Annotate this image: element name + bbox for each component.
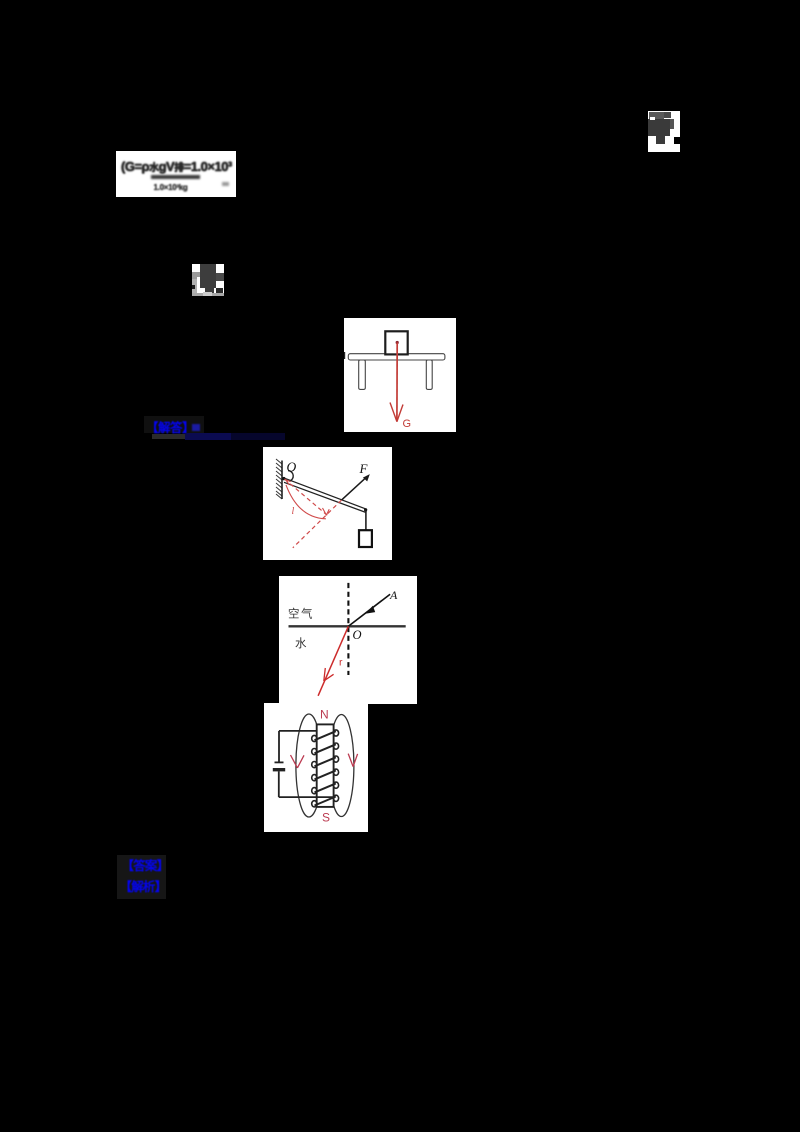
answer text blue 1: [144, 416, 204, 433]
figure 4 : solenoid with battery and field lines: [264, 703, 368, 832]
svg-text:O: O: [353, 628, 362, 642]
water surface: [289, 625, 406, 627]
weight dot: [396, 341, 399, 344]
equation snippet image: [116, 151, 236, 197]
svg-text:O: O: [287, 460, 297, 475]
beam end dot: [364, 508, 367, 511]
red arrowhead near O: [286, 480, 291, 482]
refracted ray red: [318, 626, 348, 696]
figure 2 : lever with force F and moment arm: [263, 447, 392, 560]
hinge arc: [288, 471, 293, 482]
weight block: [359, 530, 372, 547]
left field line ellipse: [296, 714, 322, 817]
svg-text:r: r: [339, 657, 343, 669]
svg-text:F: F: [359, 461, 369, 476]
wall line: [281, 461, 283, 500]
battery plates: [275, 761, 284, 763]
wall hatching: [276, 459, 282, 499]
red arc: [286, 485, 326, 519]
red dashed extension of F line: [293, 500, 342, 548]
edge tick: [344, 352, 345, 359]
answer text blue 2: [117, 855, 166, 899]
figure 1 : block on table with weight arrow G: [344, 318, 456, 432]
svg-text:G: G: [403, 418, 412, 430]
circuit wires: [279, 730, 317, 732]
hanger line: [365, 511, 367, 531]
core rect: [317, 724, 334, 807]
red arrowhead at foot: [323, 508, 327, 515]
left leg: [359, 360, 366, 389]
icon thumbnail top-right: [648, 111, 680, 152]
block: [385, 331, 407, 354]
force F arrow: [342, 476, 368, 500]
svg-text:水: 水: [295, 637, 307, 650]
normal dashed: [347, 583, 349, 675]
right leg: [426, 360, 432, 389]
right field line ellipse: [329, 715, 354, 817]
figure 3 : refraction at water surface: [279, 576, 417, 704]
red field arrows: [291, 754, 358, 768]
beam (double line): [285, 478, 367, 509]
svg-text:A: A: [389, 588, 398, 602]
pivot dot: [282, 477, 285, 480]
svg-text:空气: 空气: [288, 607, 314, 621]
svg-text:N: N: [320, 708, 329, 722]
incident ray: [348, 594, 390, 626]
table top: [348, 354, 445, 360]
weight arrow G: [396, 343, 398, 422]
winding turns: [315, 731, 336, 805]
svg-text:S: S: [322, 811, 330, 825]
svg-text:l: l: [292, 506, 295, 517]
small icon mid-left: [192, 264, 224, 296]
red dashed moment arm from O: [285, 479, 328, 516]
